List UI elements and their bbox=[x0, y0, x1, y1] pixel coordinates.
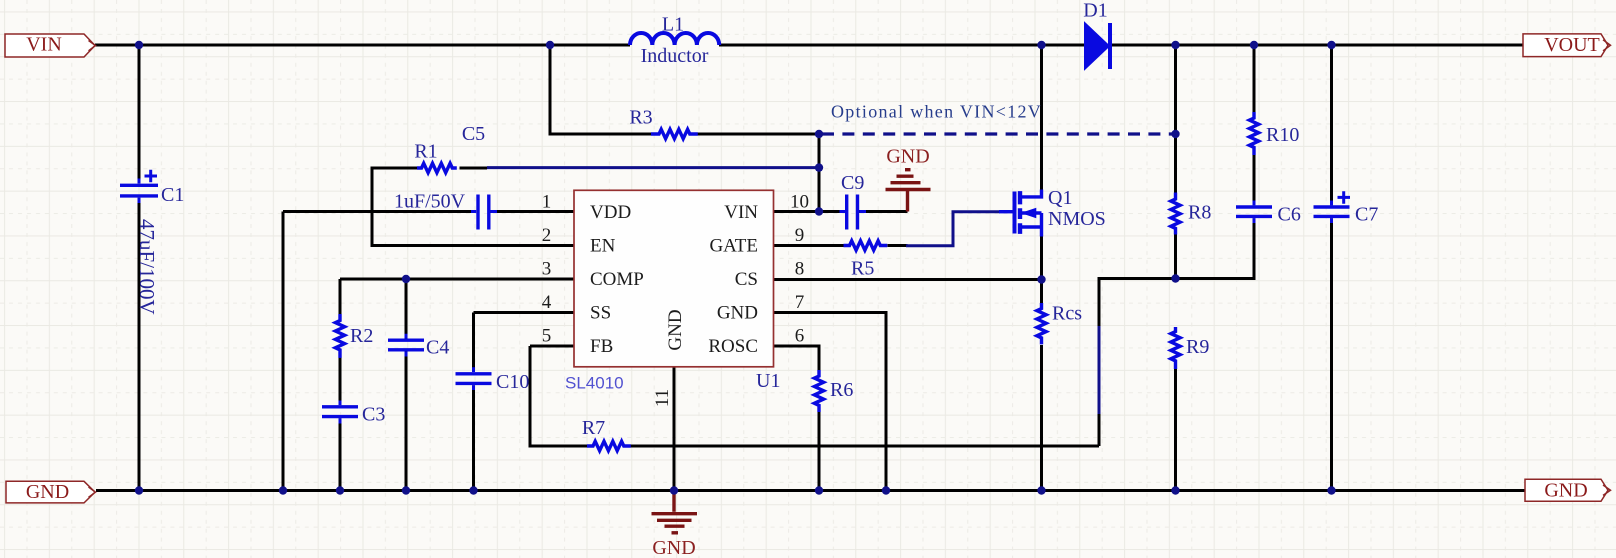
svg-text:9: 9 bbox=[795, 225, 805, 246]
wire EN loop (R1 left to EN pin) bbox=[372, 167, 574, 246]
wire R1 left lead-in bbox=[372, 167, 417, 170]
wire R10 to C6 bbox=[1253, 155, 1256, 205]
node dot VIN pin10 bbox=[815, 207, 823, 215]
svg-text:C6: C6 bbox=[1278, 204, 1301, 226]
ground symbol top (near C9) bbox=[886, 170, 931, 212]
resistor R6 bbox=[814, 370, 823, 412]
node dot rail R9 bbox=[1171, 486, 1179, 494]
svg-text:8: 8 bbox=[795, 259, 805, 280]
svg-text:1: 1 bbox=[542, 192, 552, 213]
wire R10 branch upper bbox=[1253, 45, 1256, 112]
capacitor C7 plates bbox=[1314, 207, 1350, 216]
svg-text:R5: R5 bbox=[851, 258, 874, 280]
capacitor C9 plates bbox=[847, 195, 858, 230]
wire FB row bbox=[530, 345, 574, 348]
wire FB riser navy overlay bbox=[1098, 326, 1101, 414]
wire optional dashed (VIN bypass) bbox=[822, 132, 1173, 135]
diode D1 cathode bar bbox=[1108, 23, 1112, 69]
svg-text:SS: SS bbox=[590, 302, 611, 323]
node dot rail R6 bbox=[815, 486, 823, 494]
resistor R5 bbox=[844, 241, 888, 250]
svg-text:VIN: VIN bbox=[26, 34, 62, 56]
svg-text:GND: GND bbox=[652, 537, 695, 558]
svg-text:R1: R1 bbox=[414, 141, 437, 163]
wire R3 to dashed node bbox=[698, 133, 820, 136]
wire C4 upper bbox=[405, 279, 408, 339]
svg-text:GND: GND bbox=[886, 146, 929, 168]
svg-text:3: 3 bbox=[542, 259, 552, 280]
node dot rail C7 bbox=[1327, 486, 1335, 494]
wire R1 output net (navy) bbox=[487, 166, 819, 169]
node dot rail Rcs bbox=[1037, 486, 1045, 494]
node dot FB divider bbox=[1171, 274, 1179, 282]
transistor Q1 source lead bbox=[1022, 213, 1042, 237]
svg-text:5: 5 bbox=[542, 326, 552, 347]
capacitor C7 plus bbox=[1338, 191, 1351, 204]
wire pin 6 ROSC to R6 bbox=[774, 346, 819, 370]
resistor R2 bbox=[335, 314, 344, 358]
wire R9 lower to ground rail bbox=[1174, 369, 1177, 491]
wire COMP row bbox=[340, 278, 574, 281]
svg-text:1uF/50V: 1uF/50V bbox=[394, 191, 466, 213]
transistor Q1 gate bar bbox=[1013, 192, 1017, 234]
resistor R1 bbox=[417, 163, 457, 172]
node dot rail C4 bbox=[402, 486, 410, 494]
svg-text:6: 6 bbox=[795, 326, 805, 347]
node dot rail pin11 bbox=[670, 486, 678, 494]
wire VIN top rail left bbox=[95, 44, 630, 47]
transistor Q1 body arrow bbox=[1022, 208, 1036, 217]
capacitor C5 plates bbox=[478, 195, 489, 230]
capacitor C1 plus bbox=[145, 170, 158, 183]
svg-text:4: 4 bbox=[542, 292, 552, 313]
node dot VIN/C1 bbox=[135, 41, 143, 49]
wire C7 bottom to rail bbox=[1330, 218, 1333, 490]
capacitor C3 plates bbox=[322, 407, 358, 417]
node dot dashed right bbox=[1171, 130, 1179, 138]
svg-text:GND: GND bbox=[717, 302, 758, 323]
svg-text:Inductor: Inductor bbox=[641, 45, 709, 67]
transistor Q1 channel segments bbox=[1018, 191, 1022, 234]
wire R8 to FB node bbox=[1174, 235, 1177, 279]
node dot COMP/C4 bbox=[402, 275, 410, 283]
svg-text:Rcs: Rcs bbox=[1052, 303, 1082, 325]
wire pin 8 CS row bbox=[774, 278, 1042, 281]
capacitor C9 leads bbox=[840, 210, 867, 213]
svg-text:D1: D1 bbox=[1083, 0, 1107, 22]
svg-text:C9: C9 bbox=[841, 172, 864, 194]
svg-text:R9: R9 bbox=[1186, 336, 1209, 358]
wire pin1 stub number area bbox=[538, 210, 574, 213]
capacitor C5 leads bbox=[471, 210, 497, 213]
resistor R9 bbox=[1171, 327, 1180, 369]
svg-text:11: 11 bbox=[652, 389, 673, 407]
svg-text:47uF/100V: 47uF/100V bbox=[135, 219, 159, 315]
svg-text:GND: GND bbox=[26, 481, 69, 503]
svg-text:VIN: VIN bbox=[724, 202, 758, 223]
wire FB down to R7 bbox=[530, 346, 587, 446]
node dot R10 top bbox=[1250, 41, 1258, 49]
resistor Rcs bbox=[1037, 303, 1046, 344]
wire SS to C10 bbox=[472, 313, 475, 373]
wire R5 to Q1 gate (navy) bbox=[906, 212, 1000, 246]
svg-text:VDD: VDD bbox=[590, 202, 631, 223]
svg-text:C3: C3 bbox=[362, 404, 385, 426]
wire node A vertical (x=819) bbox=[818, 134, 821, 212]
wire pin 11 to rail bbox=[673, 367, 676, 491]
wire ground rail bbox=[96, 489, 1525, 492]
wire Rcs lower bbox=[1040, 345, 1043, 491]
svg-text:Q1: Q1 bbox=[1048, 187, 1072, 209]
wire C3 to rail bbox=[339, 418, 342, 490]
svg-text:C7: C7 bbox=[1355, 204, 1378, 226]
wire R1 right to node bbox=[460, 167, 488, 170]
wire VDD branch vertical (x=283) bbox=[282, 212, 285, 491]
capacitor lead ticks C1 C3 C4 C10 C6 C7 bbox=[139, 179, 1332, 424]
transistor Q1 gate lead bbox=[999, 210, 1013, 213]
svg-text:GND: GND bbox=[1544, 479, 1587, 501]
svg-text:R10: R10 bbox=[1266, 124, 1299, 146]
resistor R8 bbox=[1171, 193, 1180, 235]
svg-text:SL4010: SL4010 bbox=[565, 374, 624, 393]
wire SS row bbox=[474, 311, 575, 314]
wire C5 to VDD pin 1 bbox=[491, 210, 574, 213]
node dot Q1 drain top bbox=[1037, 41, 1045, 49]
port VOUT bbox=[1523, 34, 1611, 57]
wire D1 cathode node down to R8 bbox=[1174, 45, 1177, 193]
capacitor C10 plates bbox=[456, 374, 492, 384]
wire R6 to rail bbox=[818, 412, 821, 491]
node dot D1 cathode bbox=[1171, 41, 1179, 49]
wire C6 bottom to FB node to R7 row bbox=[1099, 218, 1254, 446]
transistor Q1 body lead bbox=[1022, 211, 1042, 214]
svg-text:C1: C1 bbox=[161, 184, 184, 206]
capacitor C1 plates bbox=[120, 185, 158, 196]
wire C7 branch upper bbox=[1330, 45, 1333, 205]
node dot rail C10 bbox=[469, 486, 477, 494]
wire pin 10 VIN to C9 bbox=[774, 210, 845, 213]
wire Rcs upper bbox=[1040, 235, 1043, 303]
wire Q1 drain vertical bbox=[1040, 45, 1043, 191]
svg-text:COMP: COMP bbox=[590, 269, 644, 290]
wire C1 branch lower bbox=[138, 198, 141, 491]
node dot dashed left bbox=[815, 130, 823, 138]
resistor R10 bbox=[1249, 112, 1258, 155]
svg-text:VOUT: VOUT bbox=[1544, 34, 1600, 56]
svg-text:U1: U1 bbox=[756, 370, 780, 392]
svg-text:Optional when VIN<12V: Optional when VIN<12V bbox=[831, 102, 1042, 122]
diode D1 bbox=[1085, 24, 1109, 69]
node dot rail C3 bbox=[336, 486, 344, 494]
svg-text:10: 10 bbox=[790, 192, 809, 213]
svg-text:R2: R2 bbox=[350, 325, 373, 347]
svg-text:R6: R6 bbox=[830, 379, 853, 401]
port GND right bbox=[1525, 479, 1611, 501]
wire top rail after D1 bbox=[1110, 44, 1523, 47]
capacitor C6 plates bbox=[1236, 207, 1272, 216]
port VIN bbox=[5, 34, 96, 57]
inductor L1 bbox=[630, 33, 719, 45]
svg-text:GATE: GATE bbox=[709, 235, 758, 256]
svg-text:ROSC: ROSC bbox=[708, 336, 758, 357]
port GND left bbox=[6, 481, 96, 503]
wire L1 node down to R3 row bbox=[550, 45, 651, 134]
wire pin 9 GATE lead bbox=[774, 244, 844, 247]
wire COMP to R2 bbox=[339, 279, 342, 314]
wire C9 to GND stem bbox=[859, 210, 908, 213]
svg-text:CS: CS bbox=[735, 269, 758, 290]
svg-text:L1: L1 bbox=[662, 14, 684, 36]
capacitor C4 plates bbox=[388, 340, 424, 350]
wire C1 branch upper bbox=[138, 45, 141, 183]
node dot rail pin7 bbox=[882, 486, 890, 494]
svg-text:GND: GND bbox=[665, 309, 686, 350]
svg-text:2: 2 bbox=[542, 225, 552, 246]
ground symbol bottom (pin 11) bbox=[652, 493, 698, 533]
wire C10 to rail bbox=[472, 385, 475, 490]
wire R5 right short bbox=[888, 244, 908, 247]
svg-text:R7: R7 bbox=[582, 417, 605, 439]
svg-text:EN: EN bbox=[590, 235, 616, 256]
node dot CS/Rcs bbox=[1037, 275, 1045, 283]
svg-text:C10: C10 bbox=[496, 371, 529, 393]
node dot rail C1 bbox=[135, 486, 143, 494]
wire C4 lower bbox=[405, 352, 408, 491]
wire R7 right row bbox=[631, 445, 1100, 448]
node dot rail x283 bbox=[279, 486, 287, 494]
svg-text:R3: R3 bbox=[629, 107, 652, 129]
svg-text:FB: FB bbox=[590, 336, 613, 357]
node dot R1 net bbox=[815, 163, 823, 171]
svg-text:C4: C4 bbox=[426, 337, 449, 359]
resistor R7 bbox=[587, 441, 631, 450]
resistor R3 bbox=[651, 129, 698, 138]
wire pin 7 GND to rail bbox=[774, 313, 886, 491]
svg-text:C5: C5 bbox=[462, 123, 485, 145]
svg-text:NMOS: NMOS bbox=[1048, 208, 1106, 230]
op-amp U1 (IC SL4010 body) bbox=[574, 190, 774, 366]
node dot C7 top bbox=[1327, 41, 1335, 49]
svg-text:7: 7 bbox=[795, 292, 805, 313]
transistor Q1 drain lead bbox=[1022, 190, 1042, 197]
wire VDD row left of C5 bbox=[283, 210, 476, 213]
svg-text:R8: R8 bbox=[1188, 202, 1211, 224]
node dot L1 left bbox=[546, 41, 554, 49]
wire R2 to C3 bbox=[339, 357, 342, 405]
wire top rail after L1 bbox=[719, 44, 1085, 47]
